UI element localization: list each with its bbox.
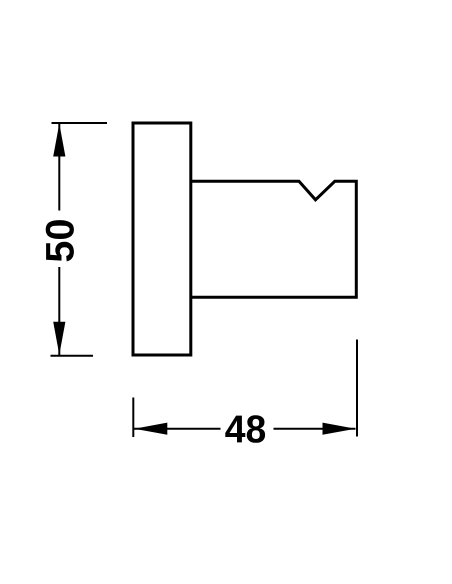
wall plate (side view rectangle) xyxy=(133,123,191,355)
dim 50: arrowhead down xyxy=(53,322,65,355)
hook arm outline with V-notch xyxy=(191,181,356,297)
dim 48: arrowhead right xyxy=(323,423,356,435)
dim 50: label "50" (rotated) xyxy=(46,220,74,261)
dim 48: dimension line left segment xyxy=(134,428,221,430)
dim 50: bottom extension tick xyxy=(51,355,94,357)
dim 48: arrowhead left xyxy=(134,423,167,435)
dim 50: top extension tick xyxy=(52,122,108,124)
dim 48: right extension line xyxy=(356,340,358,437)
dim 50: dimension line upper segment xyxy=(58,123,60,211)
dim 48: left extension line xyxy=(132,398,134,438)
dim 48: label "48" xyxy=(225,415,265,443)
dim 50: arrowhead up xyxy=(53,124,65,157)
dim 48: dimension line right segment xyxy=(274,428,356,430)
dim 50: dimension line lower segment xyxy=(58,267,60,355)
